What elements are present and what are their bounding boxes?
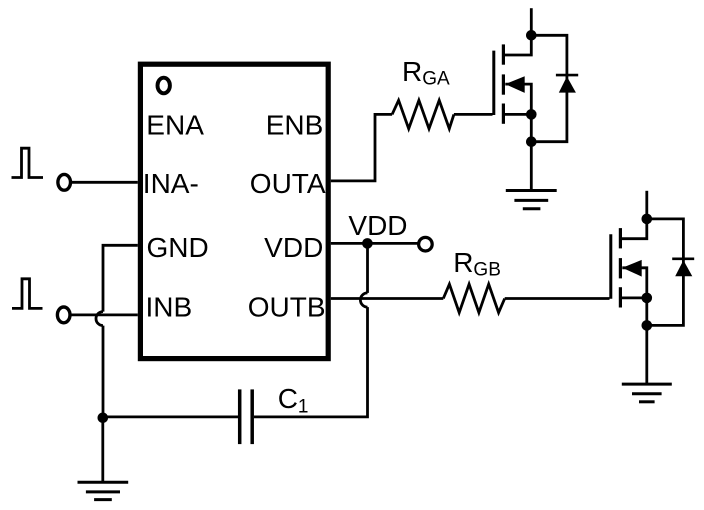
diode D1 (body diode) (556, 75, 578, 93)
wire Q1 source to ground (530, 142, 533, 191)
wire Q1 body diode branch (531, 35, 567, 141)
Q2 body arrow (622, 260, 641, 277)
Q2 body wire (622, 268, 647, 298)
wire GND pin to vertical rail (103, 245, 138, 311)
svg-text:RGB: RGB (453, 247, 501, 281)
Q1 body arrow (505, 76, 524, 93)
Q2 gate bar (609, 234, 612, 298)
capacitor C1 (240, 389, 253, 444)
wire GND rail down to bottom junction (102, 326, 105, 418)
resistor RGB (443, 284, 504, 312)
IC body U1 (140, 64, 328, 358)
ground under Q2 (622, 384, 672, 402)
wire INB input (71, 313, 138, 316)
input terminal A (open circle) (58, 174, 71, 190)
node Q1 drain junction (526, 30, 537, 41)
wire hop over INB wire (96, 312, 103, 326)
pulse input symbol B (12, 279, 43, 309)
Q1 body wire (505, 84, 531, 114)
node Q2 source junction (642, 293, 653, 304)
wire bottom junction to C1 (103, 415, 238, 418)
node bottom-left junction (98, 413, 109, 424)
Q1 channel segments (502, 44, 505, 123)
wire INA- input (72, 181, 138, 184)
svg-text:ENB: ENB (266, 110, 324, 141)
ground under Q1 (506, 191, 557, 209)
svg-text:INA-: INA- (143, 168, 199, 199)
Q1 source lead (505, 113, 532, 116)
Q2 channel segments (619, 228, 622, 307)
wire VDD rail up to VDD node (366, 243, 369, 293)
node Q2 drain junction (642, 214, 653, 225)
Q2 drain lead (622, 219, 647, 239)
wire Q1 drain stub to supply (530, 8, 533, 35)
pulse input symbol A (12, 148, 44, 177)
wire Q2 body diode branch (647, 219, 684, 326)
diode D2 (body diode) (672, 259, 694, 277)
Q1 drain lead (505, 35, 532, 55)
wire Q1 source down (530, 114, 533, 141)
wire OUTA to gate resistor (331, 114, 392, 180)
transistor Q2 (bottom MOSFET) (611, 219, 647, 308)
svg-text:INB: INB (146, 292, 193, 323)
wire Q2 source down (645, 298, 648, 326)
Q2 source lead (622, 296, 647, 299)
wire Q2 drain stub to supply (645, 191, 648, 219)
wire VDD pin to terminal (331, 242, 418, 245)
transistor Q1 (top MOSFET) (494, 35, 532, 124)
svg-text:ENA: ENA (146, 110, 204, 141)
svg-text:OUTA: OUTA (250, 168, 326, 199)
node Q2 diode return junction (642, 320, 653, 331)
svg-text:RGA: RGA (402, 56, 450, 90)
wire junction to ground (101, 418, 104, 483)
pin-1 indicator circle (158, 78, 170, 94)
wire RGB to gate (505, 297, 610, 300)
svg-text:GND: GND (147, 232, 209, 263)
wire OUTB to gate resistor (331, 297, 444, 300)
Q1 gate bar (492, 51, 495, 115)
svg-text:VDD: VDD (264, 232, 323, 263)
node Q1 diode return junction (526, 136, 537, 147)
resistor RGA (392, 100, 454, 128)
svg-text:OUTB: OUTB (248, 292, 326, 323)
node Q1 source junction (526, 109, 537, 120)
VDD terminal (open circle) (419, 237, 433, 251)
svg-text:C1: C1 (278, 383, 309, 418)
svg-text:VDD: VDD (348, 210, 407, 241)
node VDD junction (362, 238, 373, 249)
wire Q2 source to ground (645, 325, 648, 384)
wire RGA to gate (454, 113, 493, 116)
input terminal B (open circle) (57, 307, 70, 323)
wire hop over OUTB wire (360, 293, 367, 307)
ground bottom-left (78, 482, 129, 499)
wire C1 to VDD rail (254, 307, 368, 417)
